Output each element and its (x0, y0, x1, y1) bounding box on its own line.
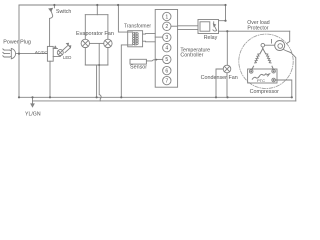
svg-text:Condenser Fan: Condenser Fan (201, 75, 238, 81)
svg-text:Protector: Protector (247, 25, 268, 31)
svg-text:1: 1 (165, 14, 168, 20)
svg-text:5: 5 (165, 57, 168, 63)
svg-text:Controller: Controller (180, 53, 203, 59)
svg-text:6: 6 (165, 68, 168, 74)
svg-text:Compressor: Compressor (250, 89, 280, 95)
svg-text:PTC: PTC (257, 78, 265, 83)
svg-text:Sensor: Sensor (130, 65, 147, 71)
svg-text:7: 7 (165, 78, 168, 84)
svg-text:Power Plug: Power Plug (3, 40, 31, 46)
svg-text:Switch: Switch (56, 9, 71, 15)
svg-text:Transformer: Transformer (124, 24, 151, 30)
svg-text:LED: LED (63, 55, 71, 60)
svg-text:AC/DC: AC/DC (35, 49, 48, 54)
svg-text:Relay: Relay (204, 35, 218, 41)
svg-text:4: 4 (165, 46, 168, 52)
svg-text:2: 2 (165, 24, 168, 30)
svg-text:3: 3 (165, 35, 168, 41)
svg-text:Evaporator Fan: Evaporator Fan (76, 31, 114, 37)
svg-text:YL/GN: YL/GN (25, 111, 41, 117)
